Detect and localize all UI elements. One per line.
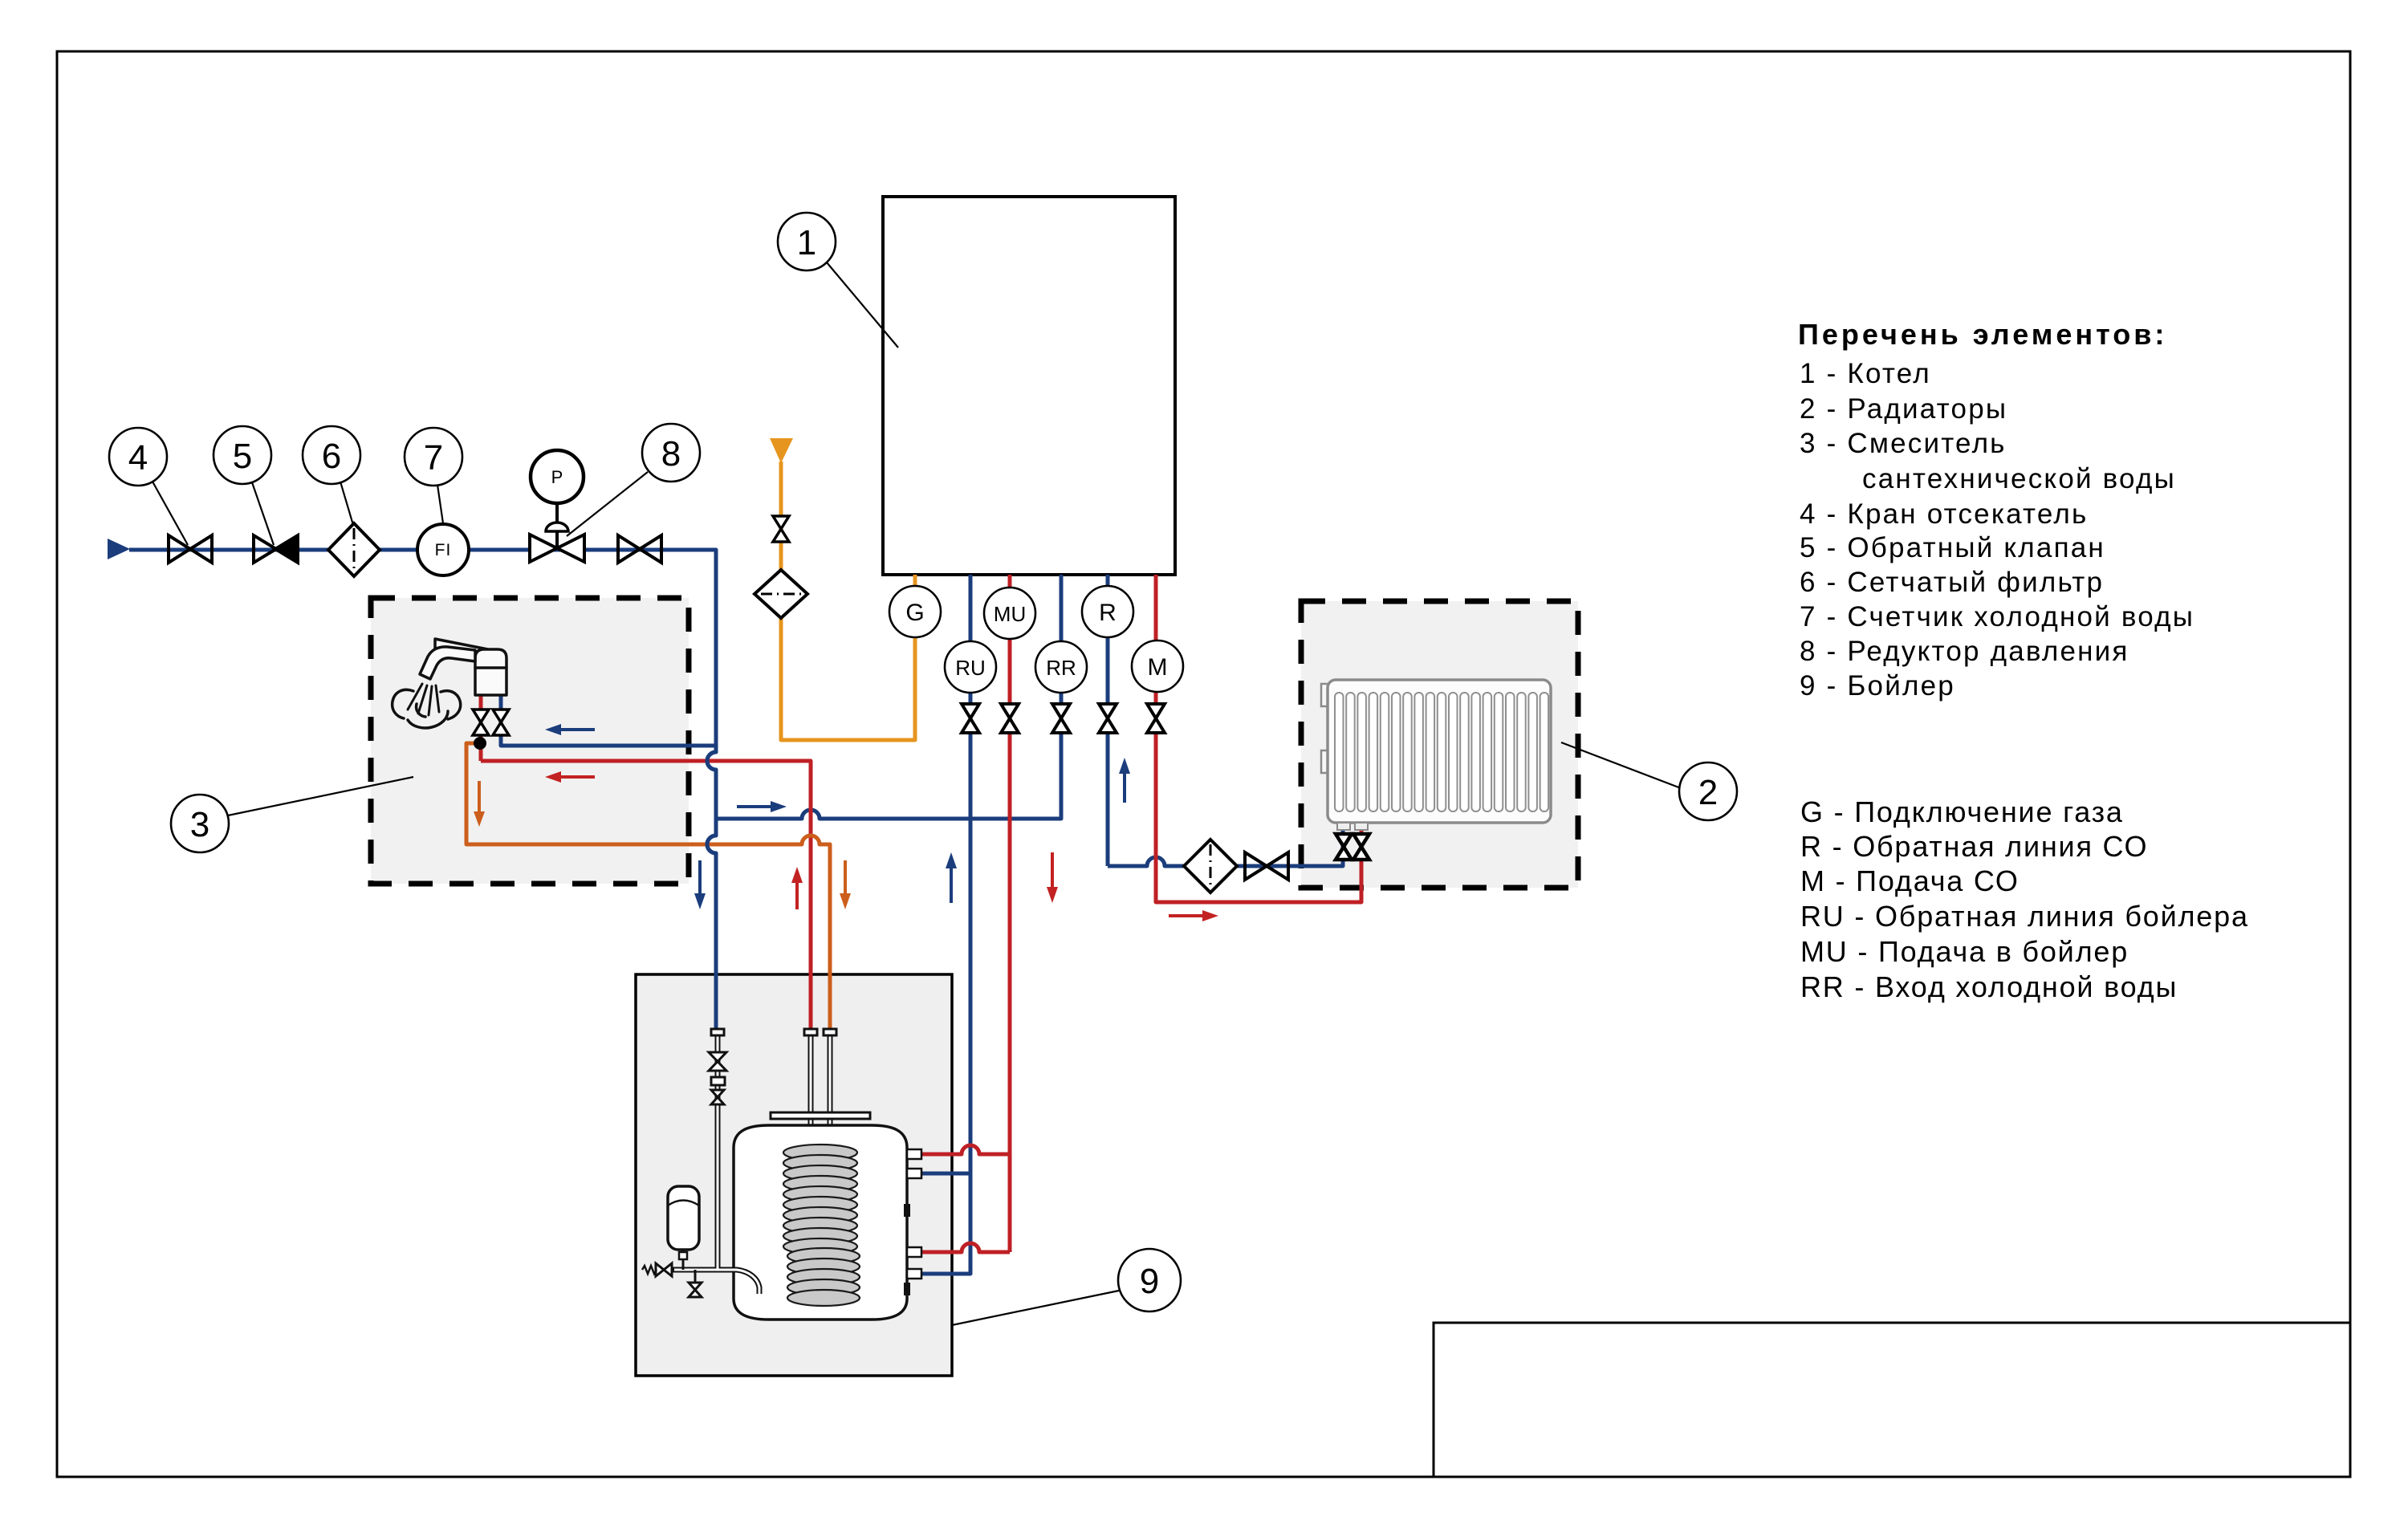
svg-text:4 - Кран отсекатель: 4 - Кран отсекатель [1800,498,2088,530]
svg-text:RU: RU [955,656,986,680]
svg-text:3: 3 [190,805,209,844]
svg-text:RR: RR [1046,656,1076,680]
svg-text:4: 4 [128,438,148,478]
svg-text:2 - Радиаторы: 2 - Радиаторы [1800,393,2007,425]
svg-text:1: 1 [797,223,816,262]
svg-text:M - Подача СО: M - Подача СО [1800,864,2020,897]
svg-text:FI: FI [435,541,452,559]
svg-text:3 - Смеситель: 3 - Смеситель [1800,428,2007,459]
svg-text:2: 2 [1698,773,1718,812]
svg-text:MU: MU [994,602,1026,626]
svg-text:MU - Подача в бойлер: MU - Подача в бойлер [1800,935,2129,968]
svg-text:6: 6 [322,437,341,476]
svg-text:9 - Бойлер: 9 - Бойлер [1800,670,1955,701]
svg-text:5 - Обратный клапан: 5 - Обратный клапан [1800,532,2105,563]
svg-text:R - Обратная линия СО: R - Обратная линия СО [1800,830,2148,863]
svg-text:8: 8 [661,434,681,474]
svg-text:9: 9 [1140,1262,1159,1301]
svg-text:G: G [905,600,924,626]
svg-text:P: P [551,467,563,487]
svg-text:RU - Обратная линия бойлера: RU - Обратная линия бойлера [1800,900,2249,933]
svg-text:8 - Редуктор давления: 8 - Редуктор давления [1800,636,2129,667]
svg-text:7: 7 [424,438,443,478]
svg-text:Перечень элементов:: Перечень элементов: [1798,318,2167,351]
svg-text:5: 5 [233,437,252,476]
svg-text:G - Подключение газа: G - Подключение газа [1800,795,2124,828]
svg-text:1 - Котел: 1 - Котел [1800,358,1931,389]
svg-text:RR - Вход холодной воды: RR - Вход холодной воды [1800,970,2178,1003]
svg-text:R: R [1099,600,1117,626]
svg-text:сантехнической воды: сантехнической воды [1862,463,2176,494]
svg-text:6 - Сетчатый фильтр: 6 - Сетчатый фильтр [1800,567,2104,598]
svg-text:M: M [1148,654,1168,681]
svg-text:7 - Счетчик холодной воды: 7 - Счетчик холодной воды [1800,601,2194,632]
